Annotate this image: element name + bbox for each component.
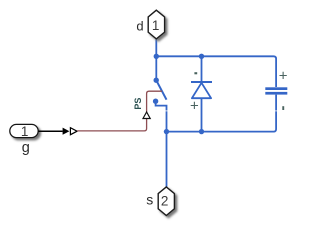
svg-text:s: s <box>146 192 153 208</box>
node: junction of switch/source on bottom rail <box>164 129 169 134</box>
diode D1 top lead <box>201 56 203 81</box>
switch SW lever (open blade) <box>156 80 166 100</box>
wire: port-boundary nick on switch-source wire <box>165 110 167 111</box>
diode D1 bottom lead <box>201 98 203 132</box>
wire: port-boundary nick on capacitor lead <box>275 110 277 111</box>
svg-text:+: + <box>190 98 199 115</box>
svg-text:g: g <box>22 140 30 156</box>
diode D1 triangle (anode pointing up) <box>192 83 211 98</box>
svg-text:1: 1 <box>21 124 29 139</box>
wire: top rail from drain junction to capacitor branch (rounded corner) <box>156 56 276 87</box>
wire: physical signal line from PS marker to switch lever (upper segment) <box>147 91 162 112</box>
svg-text:+: + <box>279 67 288 84</box>
node: junction of diode bottom lead on bottom rail <box>199 129 204 134</box>
diode D1 cathode bar <box>191 81 212 83</box>
switch SW (ideal switch) top terminal <box>154 78 159 83</box>
wire: physical signal line from converter to PS marker (lower segment) <box>77 119 146 131</box>
wire: switch top lead from top rail down to switch terminal <box>155 56 157 80</box>
capacitor C1 minus polarity mark <box>282 106 284 110</box>
node: T-junction of drain lead and top rail <box>154 54 159 59</box>
port s (source) hexagonal port 2 <box>158 187 174 216</box>
wire: drain lead from port d to top rail junction <box>155 39 157 57</box>
PS marker triangle on physical signal line <box>143 112 150 119</box>
wire: switch bottom terminal step down to bottom rail <box>156 101 167 131</box>
capacitor C1 bottom plate <box>265 92 287 95</box>
inport g (gate input, oval port 1) <box>10 124 38 137</box>
wire: gate signal line from inport to converter <box>38 130 62 132</box>
arrowhead: gate signal solid arrow <box>63 128 70 135</box>
switch SW bottom terminal <box>153 99 158 104</box>
svg-text:d: d <box>136 19 143 34</box>
diode D1 minus polarity mark <box>194 72 197 74</box>
port d (drain) hexagonal port 1 <box>148 10 164 39</box>
svg-text:1: 1 <box>152 18 160 33</box>
wire: source lead from bottom rail down to port s <box>166 132 168 187</box>
wire: capacitor bottom lead down to bottom rail (rounded corner) <box>167 95 277 132</box>
capacitor C1 top plate <box>265 87 287 90</box>
svg-text:PS: PS <box>133 98 143 110</box>
node: junction of diode top lead on top rail <box>199 54 204 59</box>
svg-text:2: 2 <box>161 194 169 209</box>
arrowhead: PS converter hollow triangle <box>70 128 77 135</box>
